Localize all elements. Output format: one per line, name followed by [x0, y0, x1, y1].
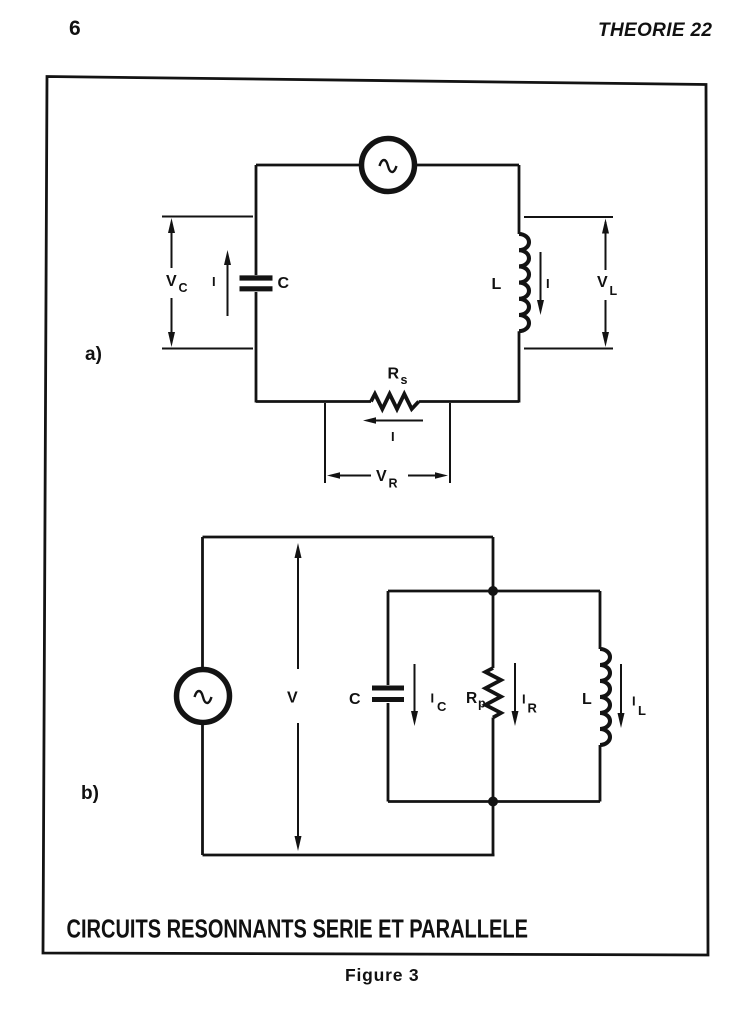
current arrow I leftward (bottom, a) [363, 417, 423, 424]
svg-text:V: V [287, 690, 298, 707]
label VC [166, 273, 188, 295]
wire: tank top rail (b) [388, 590, 600, 593]
tick: VL bottom reference (a) [524, 348, 613, 350]
wire: tank bottom rail (b) [388, 800, 600, 803]
wire: bottom conductor right segment (a) [419, 400, 519, 403]
svg-text:V: V [166, 273, 177, 290]
svg-text:C: C [349, 691, 361, 708]
resistor R2 "Rp" (b) [485, 668, 501, 718]
svg-text:C: C [179, 281, 188, 295]
svg-text:a): a) [85, 344, 102, 365]
svg-text:V: V [376, 468, 387, 485]
dimension arrow VR (a) [327, 472, 448, 479]
label VL [597, 274, 618, 298]
svg-text:L: L [582, 691, 592, 708]
tick: VL top reference (a) [524, 216, 613, 218]
wire: left conductor lower segment (b) [201, 723, 204, 855]
wire: Rp branch upper segment (b) [492, 591, 495, 668]
label IR (b) [522, 692, 538, 716]
wire: C branch upper segment (b) [387, 591, 390, 685]
wire: Rp branch lower segment (b) [492, 718, 495, 802]
svg-text:R: R [388, 366, 400, 383]
svg-text:I: I [522, 692, 526, 707]
wire: right conductor upper segment (a) [518, 165, 521, 234]
wire: feed from top conductor to node A (b) [492, 537, 495, 591]
svg-text:I: I [212, 274, 216, 289]
inductor L2 "L" (b) [600, 649, 610, 745]
svg-text:I: I [546, 276, 550, 291]
inductor L1 "L" (a) [519, 234, 529, 331]
source G1: AC generator (a) [362, 139, 415, 192]
svg-text:R: R [528, 701, 538, 716]
svg-text:s: s [401, 373, 408, 387]
svg-text:b): b) [81, 783, 99, 804]
svg-text:C: C [437, 699, 447, 714]
dimension arrow VC (a) [168, 218, 175, 347]
svg-text:I: I [632, 694, 636, 709]
resistor R1 "Rs" (a) [371, 394, 419, 409]
tick: VR right reference (a) [449, 403, 451, 483]
svg-text:C: C [278, 275, 290, 292]
svg-text:Figure 3: Figure 3 [345, 965, 419, 985]
label Rp (b) [466, 690, 486, 711]
wire: left conductor lower segment (a) [255, 292, 258, 403]
wire: left conductor upper segment (a) [255, 165, 258, 275]
node A: top junction (b) [488, 586, 498, 596]
svg-text:6: 6 [69, 17, 81, 40]
svg-text:CIRCUITS RESONNANTS SERIE ET P: CIRCUITS RESONNANTS SERIE ET PARALLELE [67, 914, 529, 944]
wire: bottom conductor left segment (a) [256, 400, 371, 403]
current arrow IL downward (b) [618, 664, 625, 728]
svg-text:V: V [597, 274, 608, 291]
tick: VC bottom reference (a) [162, 348, 253, 350]
current arrow I upward (capacitor branch, a) [224, 250, 231, 316]
label VR [376, 468, 398, 491]
dimension arrow V (b) [295, 543, 302, 851]
wire: top conductor of series loop (a) [256, 164, 519, 167]
svg-text:R: R [466, 690, 477, 707]
label IL (b) [632, 694, 646, 719]
current arrow IC downward (b) [411, 664, 418, 726]
svg-text:R: R [389, 477, 398, 491]
wire: left conductor upper segment (b) [201, 537, 204, 669]
wire: bottom conductor (b) [203, 854, 495, 857]
svg-text:L: L [610, 284, 618, 298]
svg-text:L: L [638, 703, 646, 718]
wire: node B to bottom conductor (b) [492, 802, 495, 856]
dimension arrow VL (a) [602, 219, 609, 348]
capacitor C1 "C" (a) [240, 278, 273, 289]
wire: L branch upper segment (b) [599, 591, 602, 649]
svg-text:p: p [478, 697, 486, 711]
tick: VC top reference (a) [162, 216, 253, 218]
svg-text:I: I [391, 429, 395, 444]
label Rs (a) [388, 366, 408, 388]
svg-text:THEORIE 22: THEORIE 22 [598, 20, 712, 41]
tick: VR left reference (a) [324, 403, 326, 483]
source G2: AC generator (b) [177, 670, 230, 723]
svg-text:L: L [492, 276, 502, 293]
wire: C branch lower segment (b) [387, 703, 390, 802]
wire: L branch lower segment (b) [599, 745, 602, 802]
current arrow IR downward (b) [512, 663, 519, 726]
current arrow I downward (inductor branch, a) [537, 252, 544, 315]
wire: top conductor (b) [203, 536, 494, 539]
node B: bottom junction (b) [488, 797, 498, 807]
label IC (b) [431, 691, 448, 715]
wire: right conductor lower segment (a) [518, 331, 521, 402]
svg-text:I: I [431, 691, 435, 706]
capacitor C2 "C" (b) [372, 688, 404, 700]
